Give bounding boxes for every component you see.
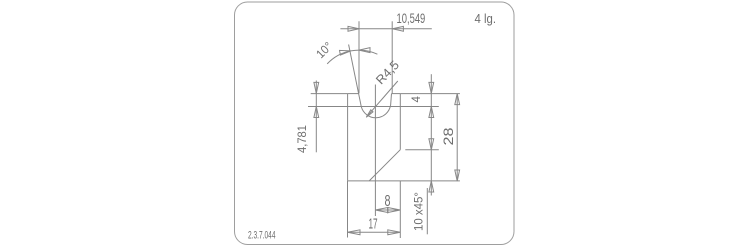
arrow 4,781 bottom	[314, 107, 319, 118]
drawing sheet frame	[235, 2, 515, 245]
svg-text:8: 8	[385, 193, 391, 210]
notch left wall + 10deg extension (slant line)	[349, 45, 362, 107]
dim line 4,781	[315, 81, 317, 153]
arrow on arc at vertical	[359, 48, 370, 53]
arrow 17 left	[348, 230, 361, 235]
arrow 8 right	[388, 208, 401, 213]
part outline top-left segment	[348, 93, 359, 95]
arrow 4 bottom	[429, 107, 434, 118]
notch right wall	[390, 94, 393, 106]
svg-text:4: 4	[411, 96, 423, 103]
dim line 8	[375, 209, 400, 211]
top edge left extension	[311, 93, 348, 95]
part chamfer edge 10x45	[369, 150, 400, 181]
svg-text:10°: 10°	[313, 39, 335, 61]
arrow 10,549 left	[348, 26, 359, 31]
arrow 4,781 top	[314, 82, 319, 93]
svg-text:10 x45°: 10 x45°	[412, 192, 426, 231]
svg-text:17: 17	[368, 217, 377, 233]
arrow 28 bottom	[455, 170, 460, 181]
arrow 17 right	[388, 230, 401, 235]
horizontal centerline of notch	[308, 105, 439, 107]
arrow on arc at slant line	[340, 50, 351, 55]
dim line 17	[348, 231, 401, 233]
dim line 28	[456, 94, 458, 181]
arrow 4 top	[429, 82, 434, 93]
dimension line 10,549	[340, 28, 431, 30]
extension line B (x=392.2)	[391, 21, 393, 93]
svg-text:2.3.7.044: 2.3.7.044	[248, 229, 276, 241]
arrow 10x45 bottom	[429, 181, 434, 192]
tick at 8 arrows junction	[387, 207, 389, 213]
right extension below part	[399, 181, 401, 238]
arrow 10x45 top	[429, 139, 434, 150]
tail line for 10x45 text	[426, 188, 428, 234]
svg-text:4,781: 4,781	[295, 125, 309, 153]
part outline right edge	[399, 94, 401, 150]
chamfer top extension	[405, 149, 439, 151]
svg-text:4 lg.: 4 lg.	[475, 11, 497, 26]
extension line A (x=359)	[358, 21, 360, 93]
notch arc R4,5	[361, 106, 390, 118]
svg-text:10,549: 10,549	[397, 11, 426, 26]
R4,5 leader line	[366, 81, 398, 117]
svg-text:R4,5: R4,5	[373, 58, 402, 87]
part outline left edge	[347, 94, 349, 181]
top edge right extension	[400, 93, 460, 95]
part outline top-right segment	[392, 93, 401, 95]
arrow 8 left	[375, 208, 387, 213]
left extension below part	[347, 181, 349, 238]
angular dim arc 10deg	[327, 50, 377, 64]
right dim line for 4 and 10x45	[430, 74, 432, 195]
arrow 28 top	[455, 94, 460, 105]
svg-text:28: 28	[441, 128, 456, 146]
R4,5 arrow	[366, 110, 373, 117]
part bottom edge + right extension	[348, 180, 460, 182]
arrow 10,549 right	[392, 26, 403, 31]
vertical centerline of notch	[374, 85, 376, 217]
